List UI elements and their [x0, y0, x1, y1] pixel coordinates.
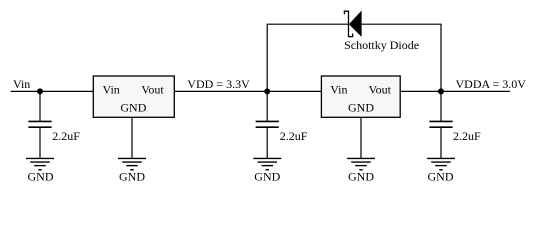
- wire C3 bottom lead: [440, 127, 442, 158]
- regulator block 1: [93, 76, 174, 117]
- wire VDD rail (box1 Vout to VDD node): [174, 90, 267, 92]
- svg-text:Schottky Diode: Schottky Diode: [344, 38, 419, 52]
- regulator block 2: [321, 76, 400, 117]
- svg-text:Vout: Vout: [369, 83, 392, 97]
- svg-text:Vin: Vin: [13, 77, 30, 91]
- ground symbol (C3): [427, 158, 455, 169]
- wire C2 bottom lead: [266, 127, 268, 158]
- svg-text:GND: GND: [120, 100, 146, 114]
- wire VDD node up to diode rail: [267, 24, 348, 91]
- capacitor C2 2.2uF: [256, 121, 279, 127]
- capacitor C3 2.2uF: [429, 121, 452, 127]
- svg-text:2.2uF: 2.2uF: [280, 129, 308, 143]
- ground symbol (C2): [253, 158, 281, 169]
- svg-text:GND: GND: [348, 169, 374, 183]
- svg-text:VDDA = 3.0V: VDDA = 3.0V: [456, 77, 527, 91]
- svg-text:VDD = 3.3V: VDD = 3.3V: [187, 77, 250, 91]
- node VDDA junction: [438, 88, 444, 94]
- ground symbol (block 1): [118, 158, 146, 169]
- svg-text:GND: GND: [348, 100, 374, 114]
- wire box2 GND lead: [360, 117, 362, 158]
- ground symbol (C1): [26, 158, 54, 169]
- wire Vin input rail: [11, 90, 94, 92]
- wire C2 top lead: [266, 91, 268, 121]
- svg-text:Vin: Vin: [103, 83, 120, 97]
- wire C1 bottom lead: [39, 127, 41, 158]
- svg-text:GND: GND: [28, 169, 54, 183]
- svg-text:2.2uF: 2.2uF: [52, 129, 80, 143]
- wire VDD node to box2 Vin: [267, 90, 321, 92]
- wire C1 top lead: [39, 91, 41, 121]
- svg-text:GND: GND: [428, 169, 454, 183]
- svg-text:GND: GND: [254, 169, 280, 183]
- ground symbol (block 2): [347, 158, 375, 169]
- svg-text:2.2uF: 2.2uF: [453, 129, 481, 143]
- diode D1 Schottky: [344, 11, 361, 37]
- node VDD junction: [264, 88, 270, 94]
- svg-text:Vin: Vin: [330, 83, 347, 97]
- wire diode cathode rail right to VDDA node: [362, 24, 441, 91]
- svg-text:GND: GND: [119, 169, 145, 183]
- svg-text:Vout: Vout: [141, 83, 164, 97]
- node Vin junction: [37, 88, 43, 94]
- capacitor C1 2.2uF: [28, 121, 51, 127]
- wire box1 GND lead: [131, 117, 133, 158]
- wire C3 top lead: [440, 91, 442, 121]
- wire box2 Vout to VDDA node and stub: [400, 90, 510, 92]
